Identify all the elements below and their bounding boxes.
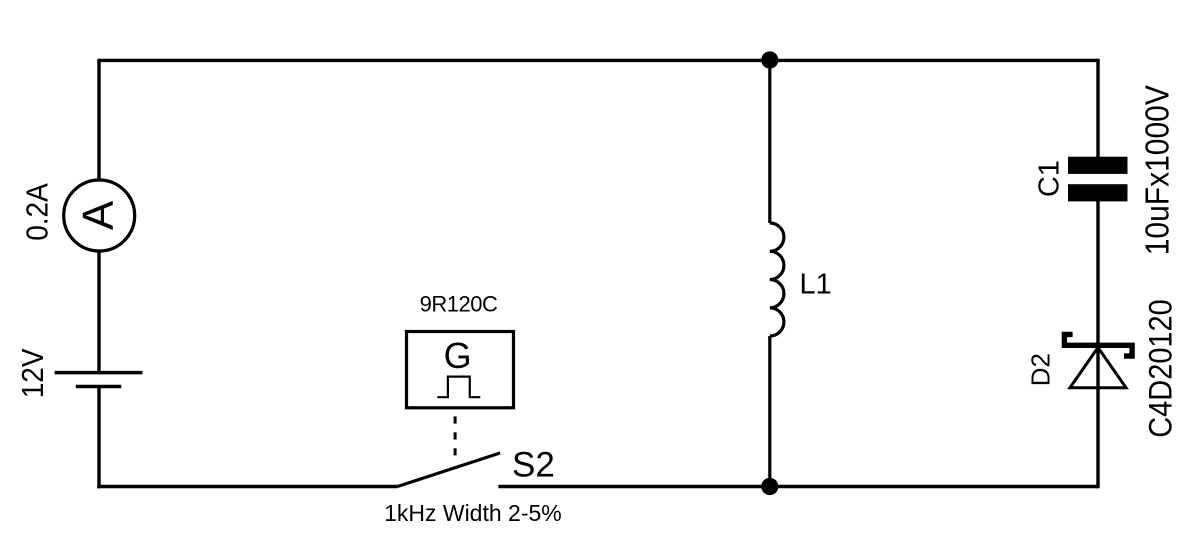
battery short plate [76,385,122,389]
wire right rail upper [1096,59,1099,157]
wire left rail upper [97,59,100,180]
svg-text:D2: D2 [1026,353,1056,386]
wire dashed control line [454,416,457,456]
svg-text:C1: C1 [1034,160,1066,197]
inductor L1 coil [770,223,784,336]
node junction top [761,51,778,68]
svg-text:0.2A: 0.2A [22,183,55,241]
svg-text:9R120C: 9R120C [420,292,498,317]
capacitor C1 bottom plate [1068,184,1128,201]
svg-text:S2: S2 [512,446,555,485]
generator U1 box [407,332,514,408]
svg-text:1kHz Width 2-5%: 1kHz Width 2-5% [384,500,562,526]
node junction bottom [761,478,778,495]
wire ammeter to battery [97,251,100,373]
svg-text:A: A [74,200,123,230]
capacitor C1 top plate [1068,157,1128,174]
svg-text:12V: 12V [17,348,50,398]
ammeter [64,180,135,251]
diode D2 schottky cathode bar [1064,334,1132,356]
battery long plate [55,371,143,375]
wire inductor branch lower [768,336,771,487]
svg-text:C4D20120: C4D20120 [1142,299,1179,438]
wire inductor branch upper [768,60,771,223]
wire bottom rail left [97,485,397,488]
diode D2 triangle [1070,348,1126,388]
wire right rail lower [1096,201,1099,488]
wire top rail [99,59,1098,62]
wire bottom rail right [498,485,1098,488]
svg-text:L1: L1 [800,269,832,301]
wire battery to bottom rail [97,387,100,489]
svg-text:10uFx1000V: 10uFx1000V [1138,84,1176,255]
generator pulse symbol [437,377,480,398]
svg-text:G: G [444,335,472,376]
switch S2 arm [398,453,501,487]
